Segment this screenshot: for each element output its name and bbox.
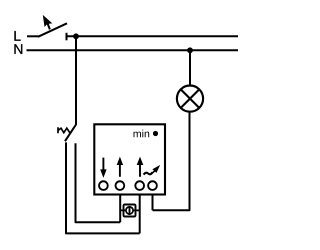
min indicator dot	[153, 131, 158, 136]
glow lamp E2 inner bar	[129, 206, 131, 215]
wire terminal 4 down	[152, 194, 154, 210]
terminal 4 circle	[148, 181, 157, 190]
trimmer screwdriver icon	[144, 165, 161, 175]
wire push-button contact A down and right to terminal 3 net	[66, 142, 140, 233]
wire terminal 3 down	[139, 194, 141, 233]
node L label	[14, 31, 20, 41]
terminal 1 circle	[99, 181, 108, 190]
switch S1 right contact tick	[66, 33, 68, 41]
wire from N junction down to lamp	[189, 50, 191, 85]
lamp E1 cross	[181, 90, 199, 108]
wire push-button contact B down and right to terminal 2 net	[76, 143, 121, 222]
wire N line	[27, 49, 239, 51]
wire from lamp down and left to dimmer terminal 4	[153, 112, 190, 210]
junction dot on N	[187, 47, 193, 53]
wire terminal 2 down	[119, 194, 121, 222]
junction dot on L	[73, 33, 79, 39]
push-button S2 lever	[65, 125, 76, 142]
glow lamp E2 square	[124, 205, 136, 217]
wire L line right segment	[67, 35, 239, 37]
wire glow-lamp leads between terminal 2 and 3 nets	[120, 209, 140, 211]
dimmer unit U1 box	[94, 124, 165, 194]
terminal 2 circle	[116, 181, 125, 190]
node N label	[14, 44, 22, 54]
arrow up (terminal 3)	[137, 157, 144, 177]
arrow down (terminal 1)	[100, 158, 106, 178]
terminal 3 circle	[135, 181, 144, 190]
switch S1 lever (mains switch in L)	[38, 23, 67, 37]
wire L line left segment	[27, 35, 39, 37]
glow lamp E2 inner circle	[126, 207, 133, 214]
lamp E1 circle	[177, 86, 203, 112]
arrow up (terminal 2)	[117, 157, 123, 177]
switch S1 actuation cursor arrow	[43, 15, 53, 30]
min label	[134, 130, 150, 138]
wire from L junction down to push-button	[75, 36, 77, 125]
push-button S2 actuator squiggle	[58, 127, 71, 134]
